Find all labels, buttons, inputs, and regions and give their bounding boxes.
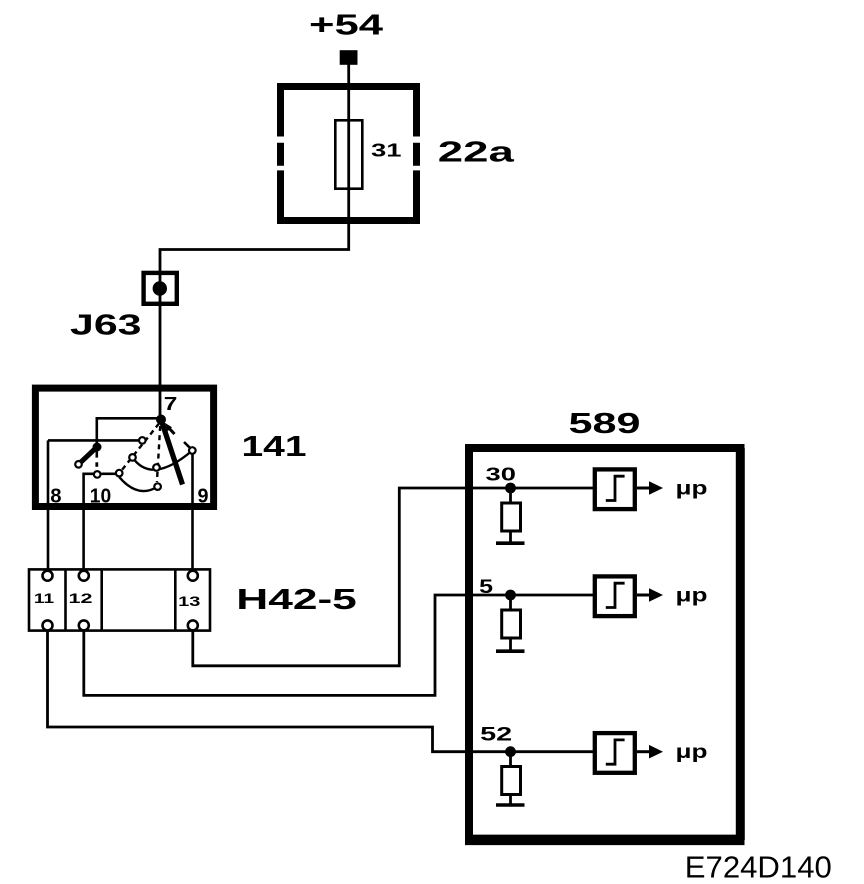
wire pin 11 to input 52 of unit 589 bbox=[48, 630, 595, 751]
connector J63 contact dot bbox=[153, 281, 167, 295]
wire contact row from pin 8 bbox=[48, 439, 138, 442]
label E724D140 bbox=[685, 849, 832, 884]
svg-text:9: 9 bbox=[198, 486, 209, 508]
svg-text:5: 5 bbox=[479, 577, 493, 598]
input 30 label bbox=[486, 463, 516, 484]
pin 11 top contact bbox=[43, 571, 53, 581]
pull resistor on input 30 bbox=[502, 488, 521, 542]
connector J63 box bbox=[144, 273, 177, 304]
connector H42-5 dividers bbox=[66, 569, 176, 631]
switch pivot dot bbox=[156, 415, 166, 425]
terminal +54 (filled square) bbox=[340, 50, 358, 65]
arrow to microprocessor input 30 bbox=[637, 481, 663, 495]
svg-text:589: 589 bbox=[569, 408, 641, 440]
contact c3 bbox=[153, 464, 160, 471]
svg-text:13: 13 bbox=[178, 593, 200, 609]
input 52 label bbox=[480, 724, 512, 746]
wire pivot to left branch bbox=[97, 418, 161, 457]
pin 9 label bbox=[198, 486, 209, 508]
pull resistor on input 52 bbox=[502, 752, 521, 804]
svg-text:H42-5: H42-5 bbox=[236, 584, 356, 616]
connector H42-5 box bbox=[29, 569, 210, 630]
pin 12 label bbox=[69, 590, 93, 606]
label microprocessor 30 bbox=[676, 479, 708, 500]
pin 13 top contact bbox=[188, 571, 198, 581]
fuse holder box 22a (dashed sides) bbox=[277, 83, 420, 224]
wire pin 13 to input 30 of unit 589 bbox=[193, 488, 594, 666]
svg-text:11: 11 bbox=[34, 590, 54, 606]
rotation direction arrow bbox=[165, 423, 190, 448]
svg-text:E724D140: E724D140 bbox=[685, 849, 832, 884]
label microprocessor 5 bbox=[676, 586, 708, 607]
pin 8 label bbox=[50, 486, 61, 508]
node 30 junction dot bbox=[505, 483, 516, 494]
pin 13 bottom contact bbox=[188, 620, 198, 630]
wire pin 9 down to connector bbox=[191, 455, 194, 571]
contact c2 bbox=[129, 454, 136, 461]
label 31 bbox=[371, 140, 402, 161]
wire from +54 terminal through fuse down and across to connector J63 and down to switch 141 bbox=[160, 64, 349, 415]
svg-text:7: 7 bbox=[164, 393, 178, 414]
svg-text:+54: +54 bbox=[309, 9, 383, 41]
svg-text:J63: J63 bbox=[70, 310, 142, 342]
ground bar input 5 bbox=[496, 649, 525, 653]
contact c7 bbox=[94, 471, 101, 478]
dashed link auxiliary lever to contact c7 bbox=[95, 462, 98, 467]
auxiliary lever pivot dot bbox=[93, 443, 102, 452]
contact c6 pin 9 bbox=[189, 447, 196, 454]
lower arc contact c5 to c4 bbox=[119, 477, 157, 491]
label 141 bbox=[242, 431, 307, 463]
label J63 bbox=[70, 310, 142, 342]
travel arc of switch bbox=[133, 451, 193, 470]
pin 12 top contact bbox=[79, 571, 89, 581]
ground bar input 52 bbox=[496, 803, 525, 807]
svg-text:141: 141 bbox=[242, 431, 307, 463]
pull resistor on input 5 bbox=[502, 595, 521, 650]
svg-text:31: 31 bbox=[371, 140, 402, 161]
label 589 bbox=[569, 408, 641, 440]
svg-text:12: 12 bbox=[69, 590, 93, 606]
input 5 label bbox=[479, 577, 493, 598]
node 5 junction dot bbox=[505, 590, 516, 601]
svg-text:μp: μp bbox=[676, 586, 708, 607]
svg-text:52: 52 bbox=[480, 724, 512, 746]
svg-text:30: 30 bbox=[486, 463, 516, 484]
auxiliary lever end contact bbox=[75, 461, 82, 468]
main switch lever bbox=[161, 420, 183, 485]
schmitt trigger input 30 bbox=[595, 469, 635, 509]
wire c7 to c5 bbox=[101, 472, 115, 475]
wire c7 to pin 10 exit bbox=[84, 474, 94, 571]
dashed link pivot to contact c5 bbox=[122, 424, 160, 471]
pin 13 label bbox=[178, 593, 200, 609]
svg-text:22a: 22a bbox=[438, 137, 515, 169]
label 22a bbox=[438, 137, 515, 169]
svg-text:10: 10 bbox=[90, 486, 111, 508]
svg-text:μp: μp bbox=[676, 479, 708, 500]
wire pin 8 down to connector bbox=[47, 440, 50, 570]
arrow to microprocessor input 5 bbox=[637, 588, 663, 602]
auxiliary lever bbox=[81, 447, 98, 463]
pin 12 bottom contact bbox=[79, 620, 89, 630]
contact c4 bbox=[154, 483, 161, 490]
schmitt trigger input 5 bbox=[595, 576, 635, 616]
svg-text:μp: μp bbox=[676, 742, 708, 763]
ground bar input 30 bbox=[496, 541, 525, 545]
svg-text:8: 8 bbox=[50, 486, 61, 508]
pin 11 label bbox=[34, 590, 54, 606]
wire pin 12 to input 5 of unit 589 bbox=[84, 595, 594, 695]
pin 7 label bbox=[164, 393, 178, 414]
node 52 junction dot bbox=[505, 746, 516, 757]
control unit box 589 bbox=[465, 448, 745, 841]
node +54 supply label bbox=[309, 9, 383, 41]
pin 11 bottom contact bbox=[43, 620, 53, 630]
arrow to microprocessor input 52 bbox=[637, 745, 663, 759]
fuse 31 bbox=[335, 120, 362, 188]
label microprocessor 52 bbox=[676, 742, 708, 763]
contact c5 bbox=[116, 470, 123, 477]
ignition switch box 141 bbox=[35, 388, 213, 506]
pin 10 label bbox=[90, 486, 111, 508]
schmitt trigger input 52 bbox=[595, 733, 635, 773]
contact c1 bbox=[139, 437, 146, 444]
label H42-5 bbox=[236, 584, 356, 616]
dashed link pivot down to contact c4 bbox=[157, 426, 160, 482]
